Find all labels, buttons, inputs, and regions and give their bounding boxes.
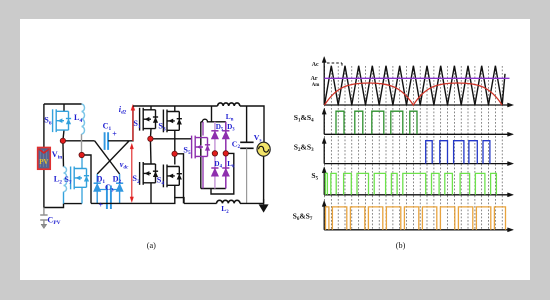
wire top rail left — [44, 103, 82, 105]
wire D1 branch — [96, 174, 98, 203]
wire S3 source to node D — [174, 130, 176, 154]
ground (output) — [259, 204, 269, 212]
wire node A to L2 coil — [62, 141, 65, 167]
triangular carrier wave — [325, 66, 506, 105]
diode D5 — [211, 131, 218, 139]
arrow id2 — [131, 104, 135, 141]
diode D6 — [222, 168, 229, 176]
svg-text:Ac: Ac — [312, 62, 319, 68]
wire bridge top rail — [133, 105, 218, 107]
gate signal S5 pulses — [325, 173, 496, 194]
svg-text:Am: Am — [312, 83, 320, 88]
wire D3-D6 branch — [225, 122, 227, 189]
gate signal S5 axis — [322, 167, 513, 197]
wire C1 right to id2 corner — [108, 106, 133, 141]
wire purple box bottom rail — [201, 188, 226, 190]
node E junction — [212, 151, 217, 156]
wire Vs bottom — [263, 156, 265, 204]
node A junction — [60, 138, 65, 143]
rectified sine reference — [325, 83, 503, 105]
inductor L4 — [82, 104, 85, 134]
svg-text:+: + — [99, 201, 104, 210]
wire S4 source — [174, 185, 176, 197]
svg-text:Ar: Ar — [311, 76, 318, 82]
gate signal S1 and S4 axis — [322, 108, 513, 136]
wire D5-D4 branch — [214, 122, 216, 189]
inductor Ln — [218, 103, 240, 106]
transistor S6 — [53, 109, 72, 132]
transistor S1 — [140, 108, 159, 131]
transistor S3 — [163, 110, 182, 133]
wire bottom left to L2 — [44, 204, 64, 208]
wire S6 drain — [63, 104, 65, 111]
wire node D to S4 drain — [174, 154, 176, 165]
Ar reference level line — [324, 77, 509, 79]
arrow vdc — [130, 143, 134, 202]
gate signal S1 and S4 pulses — [336, 111, 417, 134]
wire C2 riser — [246, 106, 248, 142]
transistor S2 — [140, 162, 159, 185]
wire L4 lower gray — [81, 134, 83, 155]
transistor S7 — [71, 167, 90, 190]
node F junction — [223, 151, 228, 156]
ground (PV side) — [41, 224, 47, 228]
svg-text:(b): (b) — [396, 241, 406, 250]
wire S7 source — [81, 187, 83, 203]
diode D1 — [94, 183, 101, 191]
dashed grid lines — [325, 66, 503, 230]
wire S6 source to node A — [63, 130, 64, 141]
wire S3 drain — [174, 106, 176, 112]
wire purple box left rail — [200, 122, 202, 189]
wire node A to C1 — [63, 140, 95, 142]
diode D2 — [116, 183, 123, 191]
wire node D to right drop — [175, 154, 184, 204]
wire S2 source — [150, 183, 152, 204]
wire hump — [201, 119, 212, 122]
wire diagonal X upper-left to D2 — [95, 141, 120, 174]
capacitor C2 — [240, 142, 253, 148]
wire bottom rail to L2 output — [184, 202, 217, 204]
wire Ln to Vs top — [240, 106, 264, 143]
wire diagonal D1 to upper-right — [97, 141, 129, 174]
AC source Vs — [257, 142, 270, 156]
wire L2 to ground — [240, 202, 264, 204]
wire bottom rail (X-box to S4 leg) — [91, 198, 184, 204]
capacitor C1 — [105, 132, 109, 150]
wire D2 branch — [119, 174, 121, 203]
diode D4 — [211, 168, 218, 176]
wire left vertical bottom (PV to bottom) — [43, 169, 45, 207]
wire S1 source to node C — [149, 129, 152, 139]
transistor S4 — [163, 165, 182, 188]
wire node B to X-box left rail — [82, 155, 91, 203]
gate signal S6 and S7 axis — [322, 201, 513, 232]
wire L2 coil to bottom — [63, 192, 65, 204]
capacitor Cpv — [40, 208, 47, 225]
wire purple box top connector — [212, 121, 226, 123]
gate signal S2 and S3 pulses — [426, 141, 490, 164]
wire top rail drop to hump — [211, 106, 213, 122]
gate signal S2 and S3 axis — [322, 138, 513, 166]
diode D3 — [222, 131, 229, 139]
inductor L2 (output) — [217, 200, 240, 203]
svg-text:PV: PV — [39, 159, 48, 166]
wire C2 bottom gray — [246, 148, 248, 203]
node D junction — [172, 151, 177, 156]
node C junction — [148, 136, 153, 141]
PV source panel — [38, 148, 51, 170]
wire node C tap to S5 gate — [150, 138, 191, 140]
inductor L2 (input) — [64, 167, 67, 192]
transistor S5 — [192, 136, 211, 159]
carrier/reference plot axis — [322, 57, 513, 108]
Ac level dashes — [327, 63, 342, 66]
wire rectifier mid tap to output — [211, 153, 234, 194]
svg-text:(a): (a) — [147, 241, 156, 250]
wire node C to S2 drain — [149, 139, 152, 164]
wire S5 drain up — [202, 122, 204, 136]
gate signal S6 and S7 pulses — [326, 207, 506, 230]
svg-text:S1&S4: S1&S4 — [294, 113, 314, 124]
wire S1 drain — [150, 106, 152, 110]
node B junction — [79, 152, 84, 157]
wire S7 drain — [81, 155, 83, 169]
capacitor C3 — [107, 186, 111, 210]
wire left vertical top (PV to top rail) — [43, 104, 45, 148]
wire S5 source down — [202, 156, 204, 188]
wire bottom box S7/L2 — [64, 203, 82, 205]
svg-text:+: + — [112, 129, 117, 138]
